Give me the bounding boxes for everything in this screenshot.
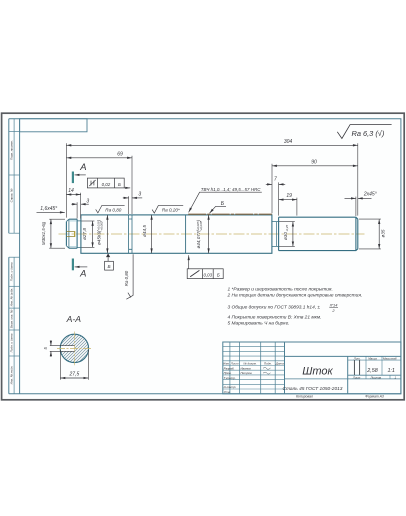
section circle <box>60 334 88 362</box>
top-left 70x14 box <box>20 119 87 132</box>
svg-text:+0,018: +0,018 <box>199 221 203 230</box>
svg-text:Ra 0,20*: Ra 0,20* <box>162 208 180 213</box>
o30 groove3 ext lines <box>279 221 295 223</box>
slot white band <box>60 346 75 351</box>
groove 2 (3 wide) <box>129 215 132 253</box>
groove 1 (o27.8x3) <box>77 221 81 248</box>
material divider <box>285 378 348 380</box>
o35 ext lines <box>359 218 381 220</box>
general roughness Ra 6,3 <box>337 125 391 139</box>
svg-text:Формат А3: Формат А3 <box>365 395 384 399</box>
svg-text:+0,002: +0,002 <box>99 221 103 230</box>
svg-text:19: 19 <box>286 193 292 199</box>
svg-text:ø27,8: ø27,8 <box>82 228 87 240</box>
left margin stamp columns (bottom block) <box>9 257 20 394</box>
M30 ext lines <box>49 218 65 220</box>
svg-text:Б: Б <box>107 264 110 270</box>
svg-text:Копировал: Копировал <box>296 395 313 399</box>
svg-text:Утв.: Утв. <box>224 390 231 394</box>
title block header row texts <box>223 362 284 366</box>
thread chamfer <box>66 219 69 248</box>
frame main left line <box>19 119 21 394</box>
svg-text:ø35: ø35 <box>381 229 386 237</box>
dim M30x1,5-6g <box>50 219 52 248</box>
step o44.5/o44.077 <box>185 215 187 253</box>
tolerance frame 1 (cylindricity 0,02 B) <box>87 178 124 188</box>
svg-text:Справ. №: Справ. № <box>9 188 13 202</box>
svg-text:Инв. № дубл.: Инв. № дубл. <box>9 288 13 307</box>
svg-text:Б: Б <box>217 272 220 277</box>
ext line groove3 right <box>278 182 280 215</box>
section cut line A (top stroke) <box>72 172 74 184</box>
svg-text:Пров.: Пров. <box>224 371 232 375</box>
dim 3 groove2 <box>123 197 129 199</box>
slot on left end <box>66 232 74 237</box>
svg-text:3: 3 <box>86 198 89 204</box>
svg-text:Листов: Листов <box>370 375 382 379</box>
tolerance frame 2 (runout 0,03 B) <box>187 269 223 279</box>
title block left part rows <box>223 347 285 389</box>
lit/massa/masshtab header <box>348 356 401 375</box>
shaft mid body o45K6 / o44.5 / o44.077 <box>81 215 272 253</box>
svg-text:1 *Размер и шероховатость посл: 1 *Размер и шероховатость после покрытия… <box>228 286 333 292</box>
svg-text:Масса: Масса <box>368 356 377 360</box>
svg-text:90: 90 <box>311 159 317 165</box>
sheet outer border <box>2 113 405 400</box>
ext line groove1 right / 14 <box>80 193 82 219</box>
svg-text:Иванов: Иванов <box>241 366 252 370</box>
title block staff rows texts <box>224 366 253 394</box>
svg-text:Ra 0,80: Ra 0,80 <box>105 207 122 212</box>
title block outer <box>223 342 401 394</box>
dim o44.077 <box>208 215 210 253</box>
svg-text:Шток: Шток <box>302 366 333 378</box>
centerline main view <box>59 233 365 235</box>
svg-text:Б: Б <box>118 182 121 187</box>
lit subcells <box>354 360 359 375</box>
ext line groove2 right <box>131 156 133 214</box>
o27.8 ext lines <box>81 220 94 222</box>
hardened zone TVCh line <box>188 213 272 215</box>
technical notes <box>227 286 363 326</box>
ext line right face <box>357 143 359 215</box>
ext line chamfer 2x45 <box>355 197 357 216</box>
dim 304 <box>66 144 357 146</box>
svg-text:Лит.: Лит. <box>353 356 361 360</box>
dim 3 groove1 <box>71 203 77 205</box>
dim o30 groove3 <box>292 222 294 247</box>
svg-text:69: 69 <box>117 151 123 157</box>
dim o45K6 <box>106 215 108 253</box>
svg-text:3: 3 <box>138 191 141 197</box>
svg-text:7: 7 <box>274 177 277 183</box>
svg-text:ТВЧ h1,0...1,4; 49,5...57 HRC: ТВЧ h1,0...1,4; 49,5...57 HRC <box>201 187 261 192</box>
svg-text:3 Общие допуски по ГОСТ 30893.: 3 Общие допуски по ГОСТ 30893.1 h14, ± <box>228 304 321 310</box>
signatures scribbles <box>263 367 271 374</box>
svg-text:Подп. и дата: Подп. и дата <box>9 262 13 281</box>
svg-text:Петров: Петров <box>241 371 253 375</box>
dim 69 <box>66 157 132 159</box>
svg-text:0,02: 0,02 <box>102 182 111 187</box>
chamfer note 1,6x45 <box>37 211 65 213</box>
svg-text:2х45°: 2х45° <box>363 192 377 198</box>
dim 14 <box>66 194 80 196</box>
svg-text:М30х1,5-6g: М30х1,5-6g <box>41 221 46 245</box>
title block left part columns <box>230 342 285 394</box>
shaft right section o35 <box>279 217 358 250</box>
svg-text:2,58: 2,58 <box>366 368 378 374</box>
vertical divider name/right <box>347 356 349 393</box>
dim o27.8 <box>92 221 94 247</box>
svg-text:А: А <box>79 161 86 172</box>
ext line groove2 left <box>128 196 130 214</box>
dim 2x45 <box>345 197 356 199</box>
svg-text:Ra 0,80: Ra 0,80 <box>124 270 129 286</box>
svg-text:Взам. инв. №: Взам. инв. № <box>9 309 13 328</box>
datum flag B <box>106 253 110 257</box>
svg-text:А: А <box>79 268 86 279</box>
ext line left face <box>65 143 67 217</box>
strip left edge segments <box>8 119 10 394</box>
svg-text:Ra 6,3 (√): Ra 6,3 (√) <box>352 129 385 138</box>
svg-text:Лист: Лист <box>230 362 239 366</box>
svg-text:Дата: Дата <box>275 362 284 366</box>
svg-text:А-А: А-А <box>66 314 82 324</box>
svg-text:IT14: IT14 <box>330 302 339 307</box>
svg-text:№ докум.: № докум. <box>243 362 256 366</box>
thread minor lines <box>69 221 77 247</box>
svg-text:Изм.: Изм. <box>223 362 230 366</box>
svg-text:Подп.: Подп. <box>264 362 272 366</box>
left margin rotated labels <box>9 140 13 384</box>
svg-text:Н.контр.: Н.контр. <box>224 385 237 389</box>
svg-text:ø30: ø30 <box>283 232 288 240</box>
svg-text:0,03: 0,03 <box>204 272 213 277</box>
svg-text:Разраб.: Разраб. <box>224 366 235 370</box>
dim o44.5 <box>151 215 153 253</box>
svg-text:4 Покрытие поверхности В: Хтв: 4 Покрытие поверхности В: Хтв 21 мкм. <box>228 315 322 321</box>
dim 19 <box>279 199 297 201</box>
shaft thread section M30 <box>66 219 77 248</box>
left margin stamp columns (top block) <box>9 119 20 234</box>
list row <box>348 374 401 376</box>
svg-text:5 Маркировать Ч на бирке.: 5 Маркировать Ч на бирке. <box>228 321 290 327</box>
dim 5 (slot) <box>50 340 52 345</box>
svg-text:Масштаб: Масштаб <box>383 356 397 360</box>
dim 27.5 <box>60 350 88 380</box>
svg-text:Инв. № подл.: Инв. № подл. <box>9 366 13 385</box>
dim 7 groove3 <box>266 183 272 185</box>
ext line dim19 right <box>296 198 298 216</box>
ext line groove3 left <box>271 164 273 213</box>
roughness Ra 0,80 rotated (groove 2) <box>126 254 133 299</box>
dim 90 <box>272 165 358 167</box>
section cut line A (bottom stroke) <box>72 259 74 271</box>
svg-text:Т.контр.: Т.контр. <box>224 376 236 380</box>
svg-text:1:1: 1:1 <box>387 368 395 374</box>
ext line groove1 left <box>76 202 78 218</box>
svg-text:14: 14 <box>68 188 74 194</box>
inner frame <box>9 119 401 394</box>
groove 3 (7 wide, o30) <box>272 222 279 247</box>
svg-text:2 На торцах детали допускаются: 2 На торцах детали допускаются центровые… <box>227 293 363 299</box>
svg-text:ø44,077(: ø44,077( <box>196 230 201 249</box>
svg-text:ø45К6(: ø45К6( <box>97 230 102 245</box>
svg-text:Сталь 45 ГОСТ 1050-2013: Сталь 45 ГОСТ 1050-2013 <box>283 386 343 392</box>
svg-text:Перв. примен.: Перв. примен. <box>9 140 13 160</box>
roughness Ra 0,80 (over o45K6) <box>96 205 125 213</box>
svg-text:1,6х45°: 1,6х45° <box>40 206 57 212</box>
slot lines <box>50 346 75 352</box>
svg-text:Лист: Лист <box>352 375 361 379</box>
title block right part: designation divider <box>285 355 401 357</box>
roughness Ra 0,20* (over hardened zone) <box>152 206 183 214</box>
section centerlines <box>57 347 92 349</box>
svg-text:Подп. и дата: Подп. и дата <box>9 333 13 352</box>
svg-text:-0,25: -0,25 <box>285 225 289 232</box>
hatch <box>50 322 93 364</box>
svg-text:ø44,5: ø44,5 <box>142 225 147 237</box>
dim o35 <box>378 219 380 249</box>
svg-text:27,5: 27,5 <box>69 372 80 378</box>
svg-text:304: 304 <box>284 139 293 145</box>
